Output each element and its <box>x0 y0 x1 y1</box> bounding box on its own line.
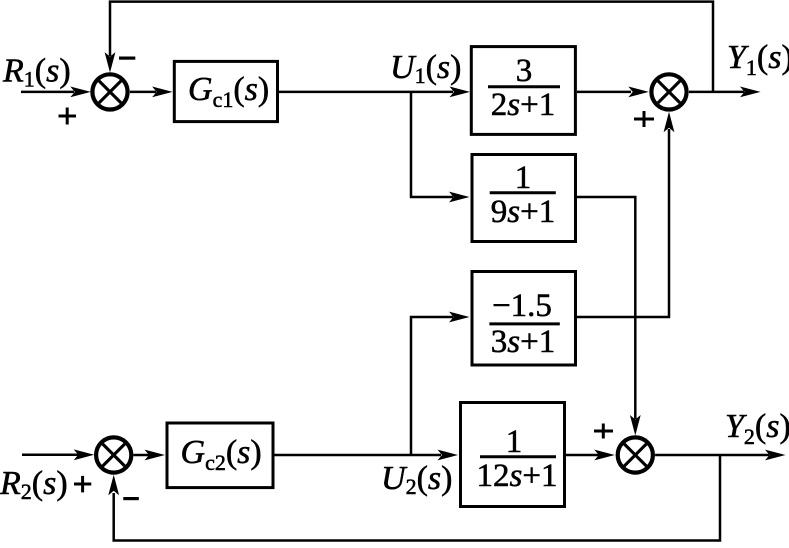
summing junction S4 <box>96 437 131 472</box>
svg-text:Y1(s): Y1(s) <box>727 39 789 80</box>
wire R2 input <box>22 449 94 460</box>
block Gc1 <box>174 61 277 121</box>
block G21 value 1/(9s+1) <box>472 155 576 242</box>
svg-text:1: 1 <box>506 424 523 460</box>
svg-text:1: 1 <box>515 160 532 196</box>
summing junction S3 <box>618 437 653 472</box>
wire U1 branch down to block G21 <box>411 92 470 202</box>
plus sign at S1 <box>59 108 77 125</box>
svg-text:R2(s): R2(s) <box>0 465 68 504</box>
wire G12 output to S2 bottom <box>577 112 674 317</box>
plus sign at S3 <box>594 424 613 439</box>
svg-text:U1(s): U1(s) <box>390 49 461 88</box>
svg-text:Y2(s): Y2(s) <box>725 408 789 449</box>
svg-text:3s+1: 3s+1 <box>491 324 555 360</box>
wire G11 to S2 <box>577 87 649 98</box>
wire G21 output to S3 top <box>577 197 641 436</box>
svg-text:3: 3 <box>516 53 533 89</box>
block G12 value -1.5/(3s+1) <box>472 272 576 366</box>
svg-text:9s+1: 9s+1 <box>491 194 555 230</box>
wire Gc1 to block G11, node U1 <box>279 87 470 98</box>
svg-text:U2(s): U2(s) <box>381 460 452 499</box>
wire R1 input <box>21 87 91 98</box>
summing junction S1 <box>92 74 127 109</box>
svg-text:2s+1: 2s+1 <box>491 87 555 123</box>
wire Y2 feedback to S4 bottom <box>108 455 720 541</box>
wire Gc2 to block G22, node U2 <box>275 450 459 461</box>
wire G22 to S3 <box>566 450 615 461</box>
wire S3 to Y2 output <box>655 450 785 461</box>
wire U2 branch up to block G12 <box>411 312 470 455</box>
wire S2 to Y1 output <box>689 87 761 98</box>
block Gc2 <box>167 423 273 488</box>
svg-text:R1(s): R1(s) <box>2 53 71 92</box>
plus sign at S4 <box>74 476 91 493</box>
block G22 value 1/(12s+1) <box>461 403 565 507</box>
minus sign at S4 <box>123 497 139 500</box>
minus sign at S1 <box>119 57 135 60</box>
wire top feedback Y1 to S1 <box>105 2 713 92</box>
svg-text:12s+1: 12s+1 <box>477 458 558 494</box>
plus sign at S2 left <box>634 111 654 127</box>
summing junction S2 <box>651 74 686 109</box>
svg-text:−1.5: −1.5 <box>492 288 552 324</box>
block G11 value 3/(2s+1) <box>471 47 575 135</box>
wire S4 to Gc2 <box>134 450 166 461</box>
wire S1 to Gc1 <box>130 87 173 98</box>
